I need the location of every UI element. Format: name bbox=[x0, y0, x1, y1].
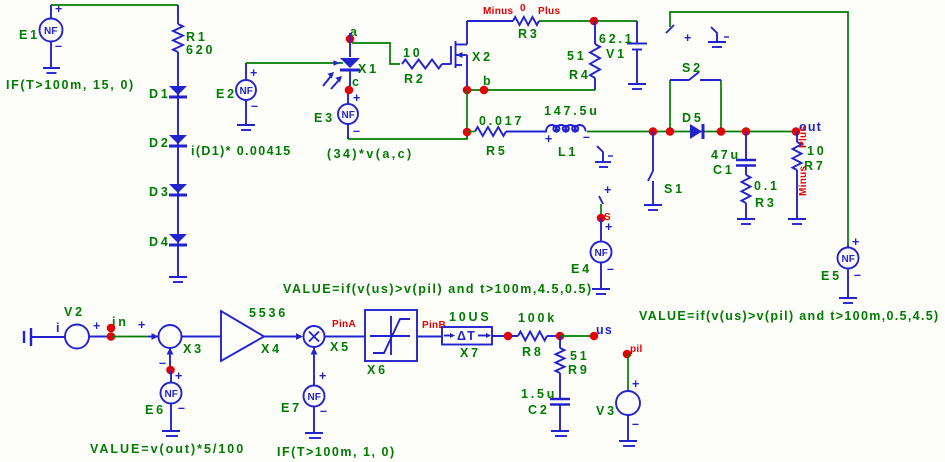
svg-text:C1: C1 bbox=[713, 163, 735, 177]
wire R8 to us bbox=[547, 335, 560, 337]
svg-text:+: + bbox=[604, 183, 613, 197]
svg-text:100k: 100k bbox=[518, 311, 557, 325]
wire R1 top lead bbox=[177, 5, 179, 24]
ground below diode chain bbox=[169, 277, 187, 282]
svg-text:R5: R5 bbox=[486, 144, 508, 158]
svg-text:10: 10 bbox=[403, 46, 423, 60]
svg-text:R8: R8 bbox=[522, 345, 544, 359]
svg-text:Plus: Plus bbox=[798, 126, 809, 148]
resistor R1 bbox=[173, 24, 183, 52]
input port bbox=[24, 328, 65, 346]
svg-text:10US: 10US bbox=[449, 310, 491, 324]
wire R1 to diode chain bbox=[177, 52, 179, 276]
svg-text:S1: S1 bbox=[664, 182, 685, 196]
svg-text:620: 620 bbox=[186, 43, 215, 57]
svg-text:47u: 47u bbox=[711, 148, 741, 162]
wire X2 drain to R3 bbox=[467, 20, 513, 22]
wire R5 node to L1 bbox=[467, 131, 475, 133]
svg-text:R1: R1 bbox=[186, 30, 208, 44]
diode D1 bbox=[169, 86, 187, 99]
svg-text:R9: R9 bbox=[568, 363, 590, 377]
capacitor C1 bbox=[736, 132, 756, 166]
svg-text:NF: NF bbox=[240, 86, 253, 97]
source V3 bbox=[616, 377, 641, 440]
S2 bracket wires bbox=[669, 80, 671, 132]
multiplier X5 bbox=[304, 326, 325, 347]
ground below E6 bbox=[162, 431, 180, 436]
S2 control slash bbox=[666, 25, 674, 33]
svg-text:IF(T>100m, 15, 0): IF(T>100m, 15, 0) bbox=[6, 78, 136, 92]
svg-text:IF(T>100m, 1, 0): IF(T>100m, 1, 0) bbox=[277, 445, 397, 459]
wire X3 to X4 bbox=[182, 336, 222, 338]
svg-text:V1: V1 bbox=[606, 47, 627, 61]
svg-text:VALUE=if(v(us)>v(pil) and t>10: VALUE=if(v(us)>v(pil) and t>100m,4.5,0.5… bbox=[283, 282, 594, 296]
node b wire bbox=[467, 89, 595, 91]
switch S1 bbox=[648, 132, 653, 205]
svg-text:+: + bbox=[684, 31, 693, 45]
svg-text:ΔT: ΔT bbox=[457, 329, 476, 343]
source E2 bbox=[236, 63, 259, 124]
svg-text:NF: NF bbox=[595, 248, 608, 259]
diode D3 bbox=[169, 184, 187, 197]
ground below E7 bbox=[305, 433, 323, 438]
diode D2 bbox=[169, 135, 187, 148]
svg-text:E4: E4 bbox=[571, 262, 592, 276]
ground below E5 bbox=[839, 298, 857, 303]
diode D4 bbox=[169, 234, 187, 247]
svg-text:b: b bbox=[483, 74, 493, 88]
resistor R3 bbox=[513, 17, 539, 25]
svg-text:V2: V2 bbox=[64, 305, 85, 319]
photodiode X1 bbox=[323, 33, 360, 90]
svg-text:E3: E3 bbox=[314, 111, 335, 125]
svg-text:X4: X4 bbox=[261, 342, 282, 356]
svg-text:+: + bbox=[175, 369, 184, 383]
svg-text:147.5u: 147.5u bbox=[544, 104, 600, 118]
wire L1 to out node bbox=[587, 131, 796, 133]
wire X2 source down to R5 bbox=[466, 90, 468, 139]
wire R5 to L1 bbox=[506, 131, 547, 133]
svg-text:V3: V3 bbox=[596, 404, 617, 418]
svg-text:L1: L1 bbox=[558, 145, 578, 159]
svg-text:(34)*v(a,c): (34)*v(a,c) bbox=[327, 147, 414, 161]
wire R3 to V1 node bbox=[539, 20, 637, 22]
svg-text:R3: R3 bbox=[755, 196, 777, 210]
node C1 bbox=[742, 127, 751, 136]
node c bbox=[345, 86, 354, 95]
svg-text:D5: D5 bbox=[682, 111, 704, 125]
limiter X6 bbox=[365, 310, 417, 361]
wire E2 to X1 bbox=[246, 62, 343, 64]
svg-text:E5: E5 bbox=[821, 269, 842, 283]
battery V1 bbox=[627, 21, 647, 83]
switch S2 bbox=[670, 72, 721, 80]
amplifier X4 bbox=[221, 311, 264, 361]
node b dots bbox=[463, 86, 472, 95]
diode D5 bbox=[690, 124, 705, 139]
svg-text:–: – bbox=[178, 401, 186, 415]
svg-text:–: – bbox=[353, 124, 361, 138]
svg-text:–: – bbox=[55, 39, 63, 53]
ground below V3 bbox=[619, 441, 637, 446]
svg-text:Minus: Minus bbox=[798, 165, 809, 196]
resistor R3 (0.1) bbox=[742, 166, 751, 219]
svg-text:+: + bbox=[852, 235, 861, 249]
svg-text:X1: X1 bbox=[358, 62, 379, 76]
svg-text:NF: NF bbox=[308, 392, 321, 403]
svg-text:PinA: PinA bbox=[332, 319, 356, 330]
capacitor C2 bbox=[550, 399, 570, 430]
svg-text:X3: X3 bbox=[183, 342, 204, 356]
node R3/R4/V1 bbox=[590, 17, 599, 26]
svg-text:–: – bbox=[251, 99, 259, 113]
svg-text:+: + bbox=[250, 66, 259, 80]
svg-text:E2: E2 bbox=[216, 87, 237, 101]
svg-text:us: us bbox=[596, 323, 613, 337]
wire E1 top to R1 bbox=[51, 4, 178, 6]
resistor R5 bbox=[475, 127, 506, 136]
source E1 bbox=[40, 2, 64, 67]
svg-text:–: – bbox=[854, 268, 862, 282]
ground below E2 bbox=[237, 125, 255, 130]
wire X5 to X6 bbox=[325, 336, 366, 338]
node S bbox=[597, 214, 606, 223]
ground below R3 bbox=[737, 219, 755, 224]
svg-text:+: + bbox=[93, 319, 102, 333]
svg-text:+: + bbox=[319, 369, 328, 383]
node D5 anode bbox=[666, 127, 675, 136]
svg-text:5536: 5536 bbox=[249, 306, 288, 320]
svg-text:–: – bbox=[159, 356, 167, 370]
svg-text:X6: X6 bbox=[367, 363, 388, 377]
ground below E1 bbox=[43, 68, 60, 73]
delay X7 bbox=[442, 327, 492, 345]
resistor R7 bbox=[793, 132, 802, 219]
svg-text:X5: X5 bbox=[330, 340, 351, 354]
resistor R9 bbox=[556, 336, 565, 398]
node S1 junction bbox=[649, 127, 658, 136]
svg-text:0.1: 0.1 bbox=[754, 179, 780, 193]
node X7/R8 bbox=[504, 332, 513, 341]
source E5 bbox=[838, 235, 863, 297]
node us bbox=[590, 332, 599, 341]
svg-text:E7: E7 bbox=[281, 401, 302, 415]
ground below E4 bbox=[592, 289, 610, 294]
wire pil to V3 bbox=[627, 354, 629, 390]
svg-text:NF: NF bbox=[842, 254, 855, 265]
svg-text:D4: D4 bbox=[149, 235, 171, 249]
svg-text:D2: D2 bbox=[149, 136, 171, 150]
svg-text:R3: R3 bbox=[518, 27, 540, 41]
svg-text:62.1: 62.1 bbox=[599, 32, 635, 46]
svg-text:51: 51 bbox=[570, 349, 590, 363]
source E3 bbox=[338, 91, 362, 139]
source E7 bbox=[304, 348, 329, 433]
ground flag near L1 bbox=[595, 146, 613, 167]
svg-text:–: – bbox=[320, 404, 328, 418]
source V2 bbox=[65, 319, 111, 349]
wire in to X3 bbox=[111, 336, 148, 338]
svg-text:+: + bbox=[545, 132, 554, 146]
svg-text:1.5u: 1.5u bbox=[521, 387, 557, 401]
wire X6 to X7 bbox=[417, 336, 442, 338]
svg-text:pil: pil bbox=[630, 344, 643, 355]
svg-text:+: + bbox=[605, 220, 614, 234]
node D5 cathode bbox=[717, 127, 726, 136]
svg-text:NF: NF bbox=[342, 110, 355, 121]
ground below R7 bbox=[788, 219, 806, 224]
node out bbox=[792, 127, 801, 136]
wire X7 to R8 bbox=[492, 335, 518, 337]
svg-text:VALUE=v(out)*5/100: VALUE=v(out)*5/100 bbox=[90, 442, 246, 456]
svg-text:–: – bbox=[607, 262, 615, 276]
wire node a to R2 bbox=[352, 43, 400, 64]
svg-text:X2: X2 bbox=[472, 50, 493, 64]
wire X4 to X5 bbox=[264, 333, 303, 340]
svg-text:NF: NF bbox=[44, 26, 57, 37]
svg-text:+: + bbox=[138, 318, 147, 332]
svg-text:0.017: 0.017 bbox=[479, 114, 524, 128]
svg-text:51: 51 bbox=[567, 49, 587, 63]
svg-text:+: + bbox=[632, 377, 641, 391]
svg-text:10: 10 bbox=[807, 144, 827, 158]
svg-text:D3: D3 bbox=[149, 185, 171, 199]
svg-text:–: – bbox=[632, 417, 640, 431]
svg-text:E1: E1 bbox=[19, 28, 40, 42]
source E6 bbox=[161, 370, 187, 430]
ground below S1 bbox=[644, 205, 662, 210]
wire control to node S bbox=[600, 204, 602, 218]
svg-text:+: + bbox=[353, 91, 362, 105]
mosfet X2 bbox=[442, 21, 467, 90]
svg-text:Minus: Minus bbox=[483, 6, 514, 17]
resistor R4 bbox=[590, 21, 600, 90]
svg-text:Plus: Plus bbox=[538, 6, 560, 17]
svg-text:D1: D1 bbox=[149, 87, 171, 101]
summer X3 bbox=[148, 325, 182, 370]
svg-text:VALUE=if(v(us)>v(pil) and t>10: VALUE=if(v(us)>v(pil) and t>100m,0.5,4.5… bbox=[639, 309, 941, 323]
svg-text:c: c bbox=[352, 75, 362, 89]
svg-text:+: + bbox=[55, 2, 64, 16]
resistor R8 bbox=[518, 332, 547, 341]
svg-text:C2: C2 bbox=[528, 403, 550, 417]
svg-text:NF: NF bbox=[165, 389, 178, 400]
svg-text:S2: S2 bbox=[682, 61, 703, 75]
wire S2 control to E5 bbox=[670, 12, 848, 245]
inductor L1 bbox=[546, 125, 586, 132]
svg-text:R4: R4 bbox=[569, 68, 591, 82]
svg-text:i(D1)* 0.00415: i(D1)* 0.00415 bbox=[191, 144, 293, 158]
svg-text:X7: X7 bbox=[460, 346, 481, 360]
resistor R2 bbox=[402, 60, 442, 69]
source E4 bbox=[591, 218, 616, 288]
ground flag top right bbox=[708, 27, 729, 47]
svg-text:R2: R2 bbox=[404, 72, 426, 86]
svg-text:0: 0 bbox=[520, 3, 526, 14]
svg-text:i: i bbox=[56, 321, 61, 335]
svg-text:E6: E6 bbox=[145, 403, 166, 417]
ground below C2 bbox=[551, 431, 569, 436]
ground below V1 bbox=[628, 84, 646, 89]
wire E3 bottom to R5 node bbox=[348, 132, 467, 139]
